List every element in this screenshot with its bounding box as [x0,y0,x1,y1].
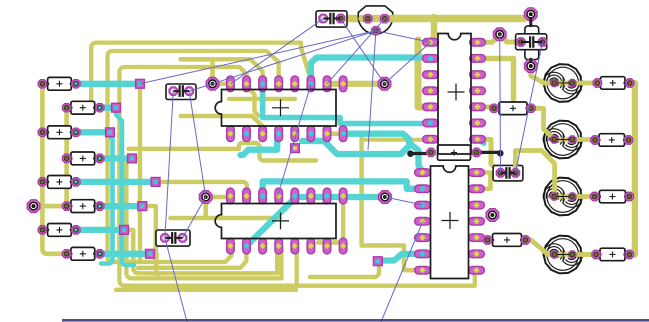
transistor Q1 pads [364,15,372,23]
wire node S5 row to U2 pad2T [156,182,247,196]
wire loop 2: U1 pad4T to U2 pad1B [108,51,279,262]
wire R14 to L2 coil [531,108,555,139]
wire U3 pad7R to C5 [477,139,501,173]
resistor R8 pads [62,250,70,258]
inductor L1 pads [551,79,558,86]
wire U1 pad3T to U3 pad6L [263,84,431,124]
wire left rail B [64,108,69,206]
op-amp U1 bottom pads [227,126,235,142]
resistor R2 body [71,101,95,114]
wire L4 coil row to R12 [555,252,596,257]
node S9 [373,257,382,266]
wire U2 pad2B diagonal to via V6 [246,197,385,246]
wire U3 pad1R to via V5 [477,36,500,43]
wire U2 pad3T to U4 pad2L [263,181,422,196]
via C4 top pad [524,8,537,21]
capacitor C4 symbol [521,41,543,43]
wire U4 pad5R to R15 [477,237,488,240]
op-amp U2 top pads [227,188,235,204]
node S3 [106,128,115,137]
capacitor C3 symbol [323,18,341,20]
capacitor C2 symbol [165,237,183,239]
capacitor C1 body [166,84,196,100]
resistor R5 pads [38,178,46,186]
capacitor C3 body [316,11,347,27]
wire R11 to right bus [629,194,635,199]
ratsnest Q1 to via V1 [213,31,376,84]
capacitor C5 symbol [501,172,516,174]
via C4 bottom pad [524,60,537,73]
ratsnest C1 to via V4 [189,91,206,197]
wire row to U1 pad3T [213,59,263,84]
wire node S3 down [101,132,113,263]
ratsnest Q1 to U1 pad7T [327,19,385,84]
wire R10 to right bus [629,138,635,143]
wire U1 pad6B row to descent [311,141,410,154]
wire loop 3 branch to U2 pad5B [295,246,297,286]
wire node S2 down [116,108,134,265]
op-amp U3 outline [438,34,471,155]
wire right vertical bus [632,83,638,255]
via V1 [206,77,219,90]
capacitor C3 pads [319,14,327,22]
op-amp U4 left pads [415,169,431,177]
inductor L4 body [544,236,581,274]
resistor R10 body [599,134,625,147]
wire C4 through L1 coil to R9 [531,66,598,83]
ratsnest C4 to C5 [515,42,542,173]
capacitor C5 body [493,165,523,181]
wire U1 pad7B to U4 pad7L [327,134,422,271]
capacitor C4 inner pads [517,38,525,46]
resistor R10 pads [591,136,599,144]
resistor R8 body [71,247,95,260]
op-amp U1 outline [215,90,336,127]
bottom window edge line [62,319,649,322]
capacitor C5 pads [496,169,504,177]
node S7 [120,226,129,235]
wire R5 to node S5 [76,179,156,185]
wire node S7 row 273.3 to U2 pad4B [124,230,277,273]
ratsnest U1 pin1 to C3 [230,18,324,84]
resistor R6 body [71,200,95,213]
op-amp U3 right pads [470,39,486,47]
wire rail through Q1 [362,15,398,22]
wire stub under U1 [181,116,263,131]
resistor R9 body [601,77,626,90]
inductor L3 body [544,178,581,216]
capacitor C4 leads [529,19,532,63]
resistor R3 body [48,126,72,139]
node S6 [138,202,147,211]
op-amp U4 right pads [469,169,485,177]
wire U1 pad2B left row [129,134,247,149]
inductor L2 body [544,121,581,159]
ratsnest U1 pad6T to U2 pad4T [278,84,311,197]
wire L3 coil row to R11 [555,194,595,199]
ratsnest C3 to via V2 [341,19,385,84]
wire U1 pad2B staircase row [247,143,317,161]
op-amp U4 outline [431,166,469,279]
wire U3 pad7R cyan stub [477,139,484,143]
node S4 [128,154,137,163]
wire U1 pad2T inner drop [247,86,259,116]
resistor R5 body [48,176,72,189]
wire loop 1: U1 pad6T to left stub [91,43,311,104]
wire R7 to node S7 [76,227,124,233]
resistor R2 pads [62,104,70,112]
op-amp U3 left pads [423,39,439,47]
capacitor C4 body [516,34,547,50]
wire R8 to node S8 [100,251,150,257]
ratsnest Q1 to node S1 [140,31,376,84]
resistor R4 pads [62,154,70,162]
via V4 [199,191,212,204]
wire via V5 to C4 left pad [500,34,521,42]
transistor Q1 body [358,6,392,34]
wire R2 to node S2 [100,105,116,111]
wire outermost bottom row [116,288,296,292]
inductor L2 pads [551,136,558,143]
resistor R1 body [48,77,72,90]
wire U1 pad7T to via V2 [327,81,385,87]
wire stub to U3 pad5L [418,40,430,107]
resistor R15 pads [483,236,491,244]
resistor R12 body [600,248,625,261]
op-amp U2 bottom pads [227,238,235,254]
wire stub to via V4 [203,197,208,218]
wire node S8 down [150,254,158,275]
ratsnest C2 to board edge [165,238,187,322]
ratsnest via V6 to U4 pad3L [385,197,423,205]
node S2 [112,103,121,112]
wire row 278.3 to U2 pad4B [126,163,281,278]
wire descent to U4 pad1L [409,143,423,173]
capacitor C2 pads [161,234,169,242]
ratsnest Q1 down [368,31,376,150]
wire R1 to node S1 [76,81,140,87]
wire U1 pad6T to U3 pad2L [311,58,431,84]
resistor R11 body [599,190,625,203]
resistor R6 pads [62,202,70,210]
wire node S6 down [142,206,156,268]
wire row inside U1 [229,97,295,101]
ratsnest via V4 to C2 [183,197,206,238]
resistor R14 body [499,102,527,115]
ratsnest C1 to via V1 [189,84,212,91]
ratsnest U4 pad4L to board edge [381,221,423,322]
wire inner row to U2 pad2B [138,248,246,268]
resistor R12 pads [592,250,600,258]
inductor L1 body [544,64,581,102]
node S5 [151,178,160,187]
wire loop 3: U1 pad2T to U4 pad7R [119,67,475,286]
wire top rail C3 to C4 [341,14,531,18]
wire top branch to U3 pin1 [431,17,434,42]
wire branch to U3 pad7L [362,138,430,142]
wire node S1 down to bottom row [138,84,142,262]
via V3 [27,200,40,213]
node S10 [291,144,300,153]
wire C5 to L3 coil [515,151,554,197]
capacitor C2 body [156,230,190,246]
resistor R3 pads [38,128,46,136]
wire U3 pad2R stub [477,59,514,100]
capacitor C1 symbol [173,90,189,92]
wire U1 pad8B row [343,134,409,140]
ratsnest Q1 to U3 pin1 [376,31,431,43]
resistor R15 body [493,234,522,247]
wire row to node S9 [310,266,379,277]
wire L2 coil row to R10 [555,137,595,142]
resistor R13 pads and leads [410,152,501,153]
wire stub under U2 [171,216,281,221]
op-amp U1 top pads [227,76,235,92]
wire left rail A to R8 [42,84,66,254]
wire R12 to right bus [629,252,635,257]
ratsnest via V5 to C5 [499,34,502,173]
resistor R7 pads [38,226,46,234]
op-amp U2 outline [215,204,336,239]
wire R6 to node S6 [100,203,143,209]
via V6 [379,191,392,204]
wire via V4 to U2 pad1T [206,196,231,197]
via V2 [378,77,391,90]
inductor L3 pads [551,193,558,200]
resistor R4 body [71,152,95,165]
wire U1 pad6B stub [302,134,311,141]
resistor R9 pads [593,79,601,87]
wire U2 pad8T down-left [318,196,343,243]
ratsnest U3 pin1 to via V2 [385,42,431,84]
inductor L4 pads [551,251,558,258]
wire R4 to node S4 [100,155,132,161]
via V7 [486,209,499,222]
wire via V1 to U1 pin1 [213,82,231,86]
wire stub to via V1 [181,59,213,84]
wire via V3 to R6 [34,204,67,209]
wire node S4 stub [132,156,140,160]
resistor R13 body [438,145,471,160]
wire R3 to node S3 [76,129,110,135]
resistor R7 body [48,224,72,237]
capacitor C1 pads [169,87,177,95]
capacitor C4 vertical capsule [525,26,539,60]
ratsnest C1 to C2 [165,91,173,238]
resistor R11 pads [590,192,598,200]
resistor R1 pads [38,80,46,88]
resistor R14 pads [490,104,498,112]
wire U4 pad6L to node S9 [378,254,422,261]
node S1 [136,79,145,88]
wire R15 to L4 coil [526,240,555,255]
via V5 [493,28,506,41]
wire U4 pad1R-pad2R link [477,173,491,189]
node S8 [146,249,155,258]
wire U3 pad6R to R14 [477,105,494,110]
wire R9 to right bus [630,81,635,86]
wire U-link U1 pads 6B-7B [311,134,327,141]
wire U1 pad4B left path [241,134,278,155]
